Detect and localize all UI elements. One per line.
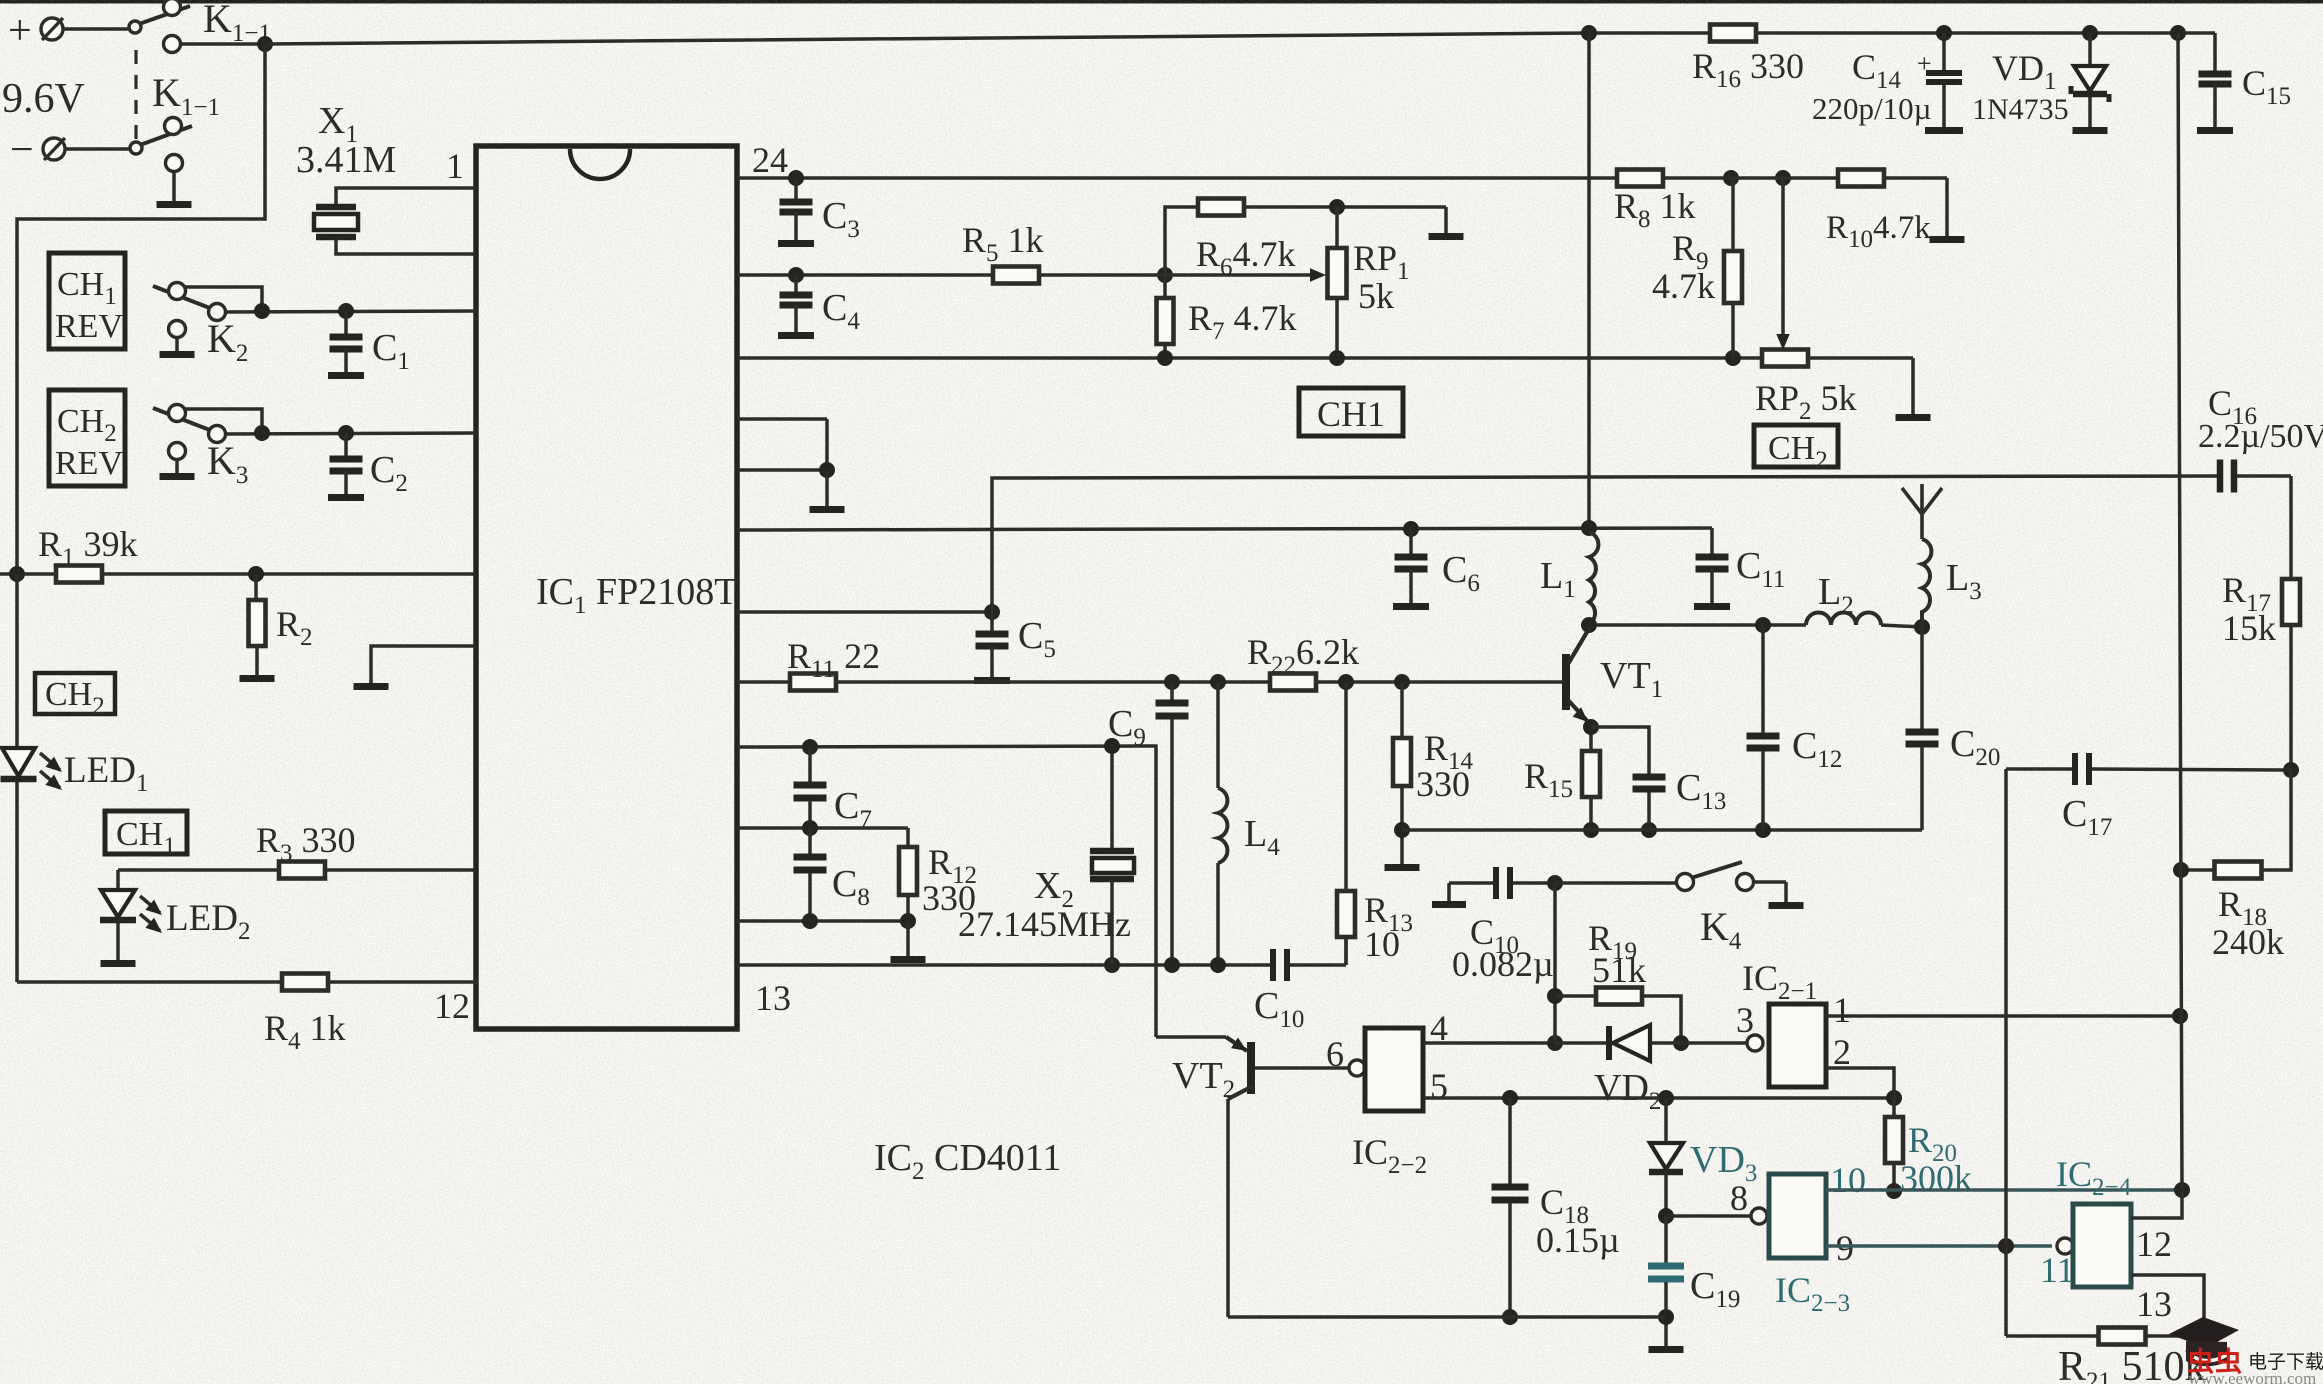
label X1 — [318, 100, 358, 148]
label IC2-3 — [1775, 1270, 1850, 1317]
label K1-1 lower — [152, 70, 220, 121]
capacitor C10 0.082u — [1432, 867, 1563, 908]
switch K4 — [1555, 862, 1786, 902]
pin 9 label — [1836, 1228, 1854, 1268]
label R16 330 — [1692, 46, 1804, 93]
pin 12 label gate — [2136, 1224, 2172, 1264]
svg-text:LED2: LED2 — [166, 898, 250, 945]
svg-text:5k: 5k — [1358, 276, 1394, 316]
resistor R8 — [1617, 170, 1663, 187]
wire K3 to IC — [226, 425, 476, 441]
label C13 — [1676, 767, 1726, 815]
label C7 — [834, 785, 872, 833]
capacitor C3 — [778, 178, 814, 247]
label IC2-1 — [1742, 958, 1817, 1005]
svg-text:2.2µ/50V: 2.2µ/50V — [2198, 418, 2323, 455]
label VT2 — [1172, 1055, 1235, 1103]
label K1-1 upper — [203, 0, 271, 47]
watermark logo — [2169, 1317, 2239, 1366]
watermark text — [2187, 1347, 2323, 1384]
pin 12 label — [434, 986, 470, 1026]
label C20 — [1950, 723, 2000, 771]
label K3 — [207, 438, 248, 489]
label R18 240k — [2212, 884, 2284, 962]
label L1 — [1540, 555, 1576, 603]
svg-text:−: − — [10, 127, 34, 173]
label 2.2u/50V — [2198, 418, 2323, 455]
wire feedback vertical — [2004, 769, 2008, 1336]
svg-text:9.6V: 9.6V — [2, 76, 85, 122]
wire C7 row to VT2 — [737, 738, 1156, 1037]
diode VD2 — [1555, 1025, 1747, 1061]
wire IC pin to ground hook — [371, 646, 476, 683]
label R21 510k — [2058, 1344, 2206, 1384]
pin 6 label — [1326, 1034, 1344, 1074]
capacitor C18 — [1492, 1098, 1529, 1325]
gate IC2-4 — [2057, 1204, 2131, 1287]
svg-text:9: 9 — [1836, 1228, 1854, 1268]
svg-text:CH1: CH1 — [1317, 394, 1385, 434]
transistor VT1 — [1562, 627, 1590, 724]
label C17 — [2062, 793, 2112, 841]
wire gate4 pin13 — [2131, 1275, 2204, 1336]
label VD1 — [1992, 48, 2057, 95]
label R19 51k — [1588, 918, 1646, 990]
wire R5 row — [737, 267, 1173, 283]
resistor R7 — [1157, 275, 1174, 358]
svg-text:0.15µ: 0.15µ — [1536, 1220, 1620, 1260]
ground below R10 — [1930, 178, 1965, 243]
wire R8 to R10 — [1663, 176, 1838, 180]
svg-text:240k: 240k — [2212, 922, 2284, 962]
label 27.145MHz — [958, 904, 1131, 944]
pin 1 label gate — [1833, 990, 1851, 1030]
label L4 — [1244, 813, 1280, 861]
label C1 — [372, 327, 410, 375]
svg-text:LED1: LED1 — [64, 750, 148, 797]
svg-text:300k: 300k — [1900, 1158, 1972, 1198]
ground below R2 — [240, 675, 275, 682]
svg-text:27.145MHz: 27.145MHz — [958, 904, 1131, 944]
label LED2 — [166, 898, 250, 945]
transistor VT2 — [1156, 1037, 1255, 1099]
label R8 1k — [1614, 186, 1696, 233]
battery negative terminal — [10, 127, 131, 173]
svg-text:24: 24 — [752, 140, 788, 180]
pin 5 label — [1430, 1066, 1448, 1106]
wire right main vertical — [2178, 33, 2182, 1190]
label C19 — [1690, 1265, 1740, 1313]
label 9.6V — [2, 76, 85, 122]
label 3.41M — [296, 139, 396, 181]
svg-text:3: 3 — [1736, 1000, 1754, 1040]
label C10 coupling — [1254, 985, 1304, 1033]
wire top rail — [265, 25, 2215, 44]
capacitor C16 — [2217, 460, 2291, 493]
wire pin8 row — [1666, 1208, 1767, 1224]
resistor R22 — [1270, 674, 1316, 691]
capacitor C5 — [974, 612, 1010, 684]
inductor L3 — [1922, 539, 1931, 627]
svg-text:15k: 15k — [2222, 608, 2276, 648]
potentiometer RP2 — [1762, 178, 1913, 414]
wire IC to C5 — [737, 604, 1000, 620]
capacitor C19 — [1648, 1216, 1684, 1346]
wire bottom rail — [1228, 1315, 1666, 1319]
crystal X2 — [1090, 746, 1134, 965]
wire vcc vertical — [1587, 33, 1591, 528]
label K2 — [207, 316, 248, 367]
wire VT2 collector down — [1226, 1099, 1230, 1317]
wire IC to L1 row — [737, 520, 1712, 537]
svg-text:R7 4.7k: R7 4.7k — [1188, 298, 1297, 345]
label R13 10 — [1364, 890, 1413, 964]
wire gate pin5 — [1423, 1090, 1902, 1106]
label IC2 CD4011 — [874, 1137, 1061, 1185]
svg-text:R3 330: R3 330 — [256, 820, 356, 867]
capacitor C2 — [328, 433, 364, 501]
label VD2 — [1594, 1067, 1661, 1115]
resistor R10 — [1838, 170, 1947, 187]
label C18 0.15u — [1536, 1182, 1620, 1260]
crystal X1 — [314, 204, 358, 241]
label X2 — [1034, 865, 1074, 913]
resistor R19 — [1555, 988, 1689, 1052]
ground after RP2 — [1896, 414, 1931, 421]
resistor R20 — [1885, 1098, 1903, 1199]
gate IC2-2 — [1365, 1028, 1423, 1111]
capacitor C7 — [794, 747, 827, 828]
capacitor C11 — [1694, 528, 1730, 610]
svg-text:10: 10 — [1830, 1160, 1866, 1200]
pin 13 label — [755, 978, 791, 1018]
wire gate3 pin9 — [1826, 1238, 2052, 1254]
pin 10 label — [1830, 1160, 1866, 1200]
capacitor C13 — [1591, 727, 1666, 838]
wire X1 to IC lower pin — [336, 240, 476, 254]
label C10 0.082u — [1452, 912, 1554, 984]
switch K3 — [153, 405, 262, 443]
box CH2 REV — [49, 390, 125, 486]
label R22 6.2k — [1247, 632, 1359, 679]
resistor R14 — [1393, 682, 1411, 864]
wire C5 to C16 — [992, 476, 2218, 612]
wire C8 row — [737, 820, 908, 836]
wire R4 row — [17, 980, 478, 984]
label C8 — [832, 863, 870, 911]
label C14 — [1852, 47, 1902, 94]
zener diode VD1 — [2071, 33, 2109, 134]
ground below C19 — [1649, 1346, 1684, 1353]
svg-text:330: 330 — [922, 878, 976, 918]
label K4 — [1700, 904, 1742, 955]
label C16 — [2208, 383, 2257, 430]
label R6 4.7k — [1196, 234, 1296, 281]
svg-text:4.7k: 4.7k — [1652, 266, 1715, 306]
svg-text:2: 2 — [1833, 1032, 1851, 1072]
svg-text:10: 10 — [1364, 924, 1400, 964]
wire base row to VT1 — [836, 674, 1564, 690]
label L3 — [1946, 557, 1982, 605]
label C15 — [2242, 63, 2291, 110]
wire C8 R12 row — [737, 913, 916, 956]
svg-text:330: 330 — [1416, 764, 1470, 804]
diode VD3 — [1649, 1098, 1683, 1224]
svg-text:1: 1 — [1833, 990, 1851, 1030]
wire gate pin4 — [1423, 1035, 1563, 1051]
box CH2 — [35, 673, 115, 720]
label R4 1k — [264, 1008, 346, 1055]
ground below K1-1 lower contact — [157, 171, 192, 208]
svg-text:13: 13 — [2136, 1284, 2172, 1324]
label IC2-4 — [2056, 1154, 2132, 1201]
label C4 — [822, 287, 860, 335]
capacitor C4 — [778, 275, 814, 339]
label L2 — [1818, 571, 1854, 619]
box CH1 — [105, 811, 187, 860]
wire R3 row — [118, 868, 476, 872]
ground at hook — [354, 683, 389, 690]
resistor R12 — [899, 828, 917, 921]
box CH1 REV — [49, 253, 125, 349]
label C12 — [1792, 725, 1842, 773]
svg-text:R8 1k: R8 1k — [1614, 186, 1696, 233]
wire K1-1 to top rail — [180, 36, 273, 52]
wire grounded pin pair — [737, 419, 835, 506]
label R14 330 — [1416, 728, 1474, 804]
switch gang dashed link — [134, 50, 137, 142]
ground at K3 — [160, 443, 195, 481]
wire gate1 pin1 — [1826, 1008, 2188, 1024]
svg-text:REV: REV — [55, 445, 123, 482]
capacitor C14 electrolytic — [1917, 33, 1963, 134]
ground below R12 — [891, 956, 926, 963]
ground after K4 — [1769, 902, 1804, 909]
switch K1-1 upper — [129, 0, 190, 53]
capacitor C20 — [1906, 627, 1939, 830]
label R15 — [1524, 756, 1573, 803]
label RP1 5k — [1353, 238, 1410, 316]
svg-text:8: 8 — [1730, 1178, 1748, 1218]
LED1 — [1, 574, 63, 982]
svg-text:1: 1 — [446, 146, 464, 186]
svg-text:220p/10µ: 220p/10µ — [1812, 91, 1931, 126]
inductor L2 — [1806, 613, 1930, 636]
svg-text:+: + — [8, 8, 32, 54]
label C2 — [370, 449, 408, 497]
svg-text:R5 1k: R5 1k — [962, 220, 1044, 267]
box CH2 channel — [1754, 425, 1838, 474]
label C3 — [822, 195, 860, 243]
label RP2 5k — [1755, 378, 1857, 425]
wire gate1 pin2 — [1826, 1068, 1894, 1098]
label 1N4735 — [1972, 93, 2069, 126]
svg-text:0.082µ: 0.082µ — [1452, 944, 1554, 984]
potentiometer RP1 — [1165, 207, 1347, 358]
capacitor C9 — [1156, 682, 1189, 965]
resistor R2 — [249, 574, 266, 675]
resistor R21 — [2006, 1328, 2204, 1345]
label R12 330 — [922, 842, 977, 918]
pin 24 label — [752, 140, 788, 180]
wire gate3 pin10 — [1826, 1182, 2190, 1198]
pin 2 label gate — [1833, 1032, 1851, 1072]
svg-text:www.eeworm.com: www.eeworm.com — [2188, 1369, 2316, 1384]
resistor R3 — [279, 862, 325, 879]
pin 1 label — [446, 146, 464, 186]
capacitor C8 — [794, 828, 827, 921]
ground at K2 — [160, 321, 195, 359]
svg-text:5: 5 — [1430, 1066, 1448, 1106]
label R9 4.7k — [1652, 228, 1715, 306]
ground below R14 — [1385, 822, 1420, 871]
svg-text:R16 330: R16 330 — [1692, 46, 1804, 93]
svg-text:6: 6 — [1326, 1034, 1344, 1074]
label C9 — [1108, 703, 1146, 751]
label R5 1k — [962, 220, 1044, 267]
resistor R9 — [1724, 178, 1742, 358]
resistor R13 — [1337, 682, 1355, 965]
wire emitter ground row — [1402, 822, 1922, 838]
IC U1 FP2108T body — [476, 146, 737, 1029]
label C11 — [1736, 545, 1785, 593]
wire K2 to IC — [226, 303, 476, 319]
wire L1 bottom row — [1581, 617, 1806, 633]
resistor R15 — [1582, 751, 1600, 797]
label C5 — [1018, 615, 1056, 663]
label R3 330 — [256, 820, 356, 867]
wire pin24 row — [737, 170, 1791, 186]
label R2 — [276, 604, 313, 651]
svg-text:3.41M: 3.41M — [296, 139, 396, 181]
capacitor C6 — [1393, 529, 1429, 610]
switch K2 — [153, 283, 262, 321]
capacitor C1 — [328, 311, 364, 379]
label R1 39k — [38, 524, 138, 571]
label VT1 — [1600, 655, 1663, 703]
resistor R6 — [1165, 199, 1446, 276]
label C6 — [1442, 549, 1480, 597]
svg-text:12: 12 — [434, 986, 470, 1026]
svg-text:IC2 CD4011: IC2 CD4011 — [874, 1137, 1061, 1185]
pin 11 label — [2040, 1250, 2075, 1290]
pin 8 label — [1730, 1178, 1748, 1218]
svg-text:13: 13 — [755, 978, 791, 1018]
gate IC2-3 — [1769, 1174, 1826, 1258]
svg-text:R226.2k: R226.2k — [1247, 632, 1359, 679]
wire R1 row — [0, 566, 476, 582]
pin 3 label — [1736, 1000, 1754, 1040]
resistor R17 — [2282, 476, 2300, 778]
wire left vertical feed — [17, 44, 265, 574]
resistor R16 — [1710, 25, 1756, 42]
label R20 300k — [1900, 1120, 1972, 1198]
svg-text:IC1 FP2108T: IC1 FP2108T — [536, 571, 737, 619]
capacitor C12 — [1747, 625, 1780, 830]
ground below LED2 — [101, 960, 136, 967]
label R7 4.7k — [1188, 298, 1297, 345]
ground after R6 — [1429, 207, 1464, 240]
label R17 15k — [2222, 570, 2276, 648]
label LED1 — [64, 750, 148, 797]
wire RP1 bottom row — [737, 350, 1764, 366]
svg-text:R4 1k: R4 1k — [264, 1008, 346, 1055]
box CH1 channel — [1299, 388, 1403, 436]
wire gate4 pin12 — [2131, 1190, 2182, 1218]
resistor R4 — [282, 974, 328, 991]
pin 4 label — [1430, 1008, 1448, 1048]
wire IC pin1 to X1 — [336, 188, 476, 206]
inductor L1 — [1589, 532, 1598, 624]
svg-text:R21 510k: R21 510k — [2058, 1344, 2206, 1384]
resistor R18 — [2173, 770, 2291, 879]
LED2 — [100, 870, 162, 960]
label VD3 — [1690, 1139, 1757, 1187]
svg-text:11: 11 — [2040, 1250, 2075, 1290]
wire pin13 row — [737, 957, 1270, 973]
resistor R11 — [737, 674, 836, 691]
label R11 22 — [787, 636, 880, 683]
svg-text:R1 39k: R1 39k — [38, 524, 138, 571]
label R10 4.7k — [1826, 210, 1931, 253]
resistor R5 — [993, 267, 1165, 284]
antenna — [1902, 484, 1942, 539]
capacitor C17 — [2006, 753, 2291, 785]
svg-text:12: 12 — [2136, 1224, 2172, 1264]
svg-text:1N4735: 1N4735 — [1972, 93, 2069, 126]
label 220p/10u — [1812, 91, 1931, 126]
ground at pin pair — [810, 506, 845, 513]
gate IC2-1 — [1747, 1004, 1826, 1087]
label IC2-2 — [1352, 1132, 1427, 1179]
capacitor C10 coupling — [1270, 937, 1346, 981]
svg-text:51k: 51k — [1592, 950, 1646, 990]
svg-text:REV: REV — [55, 308, 123, 345]
battery positive terminal — [8, 8, 130, 54]
wire VT2 base to gate — [1255, 1060, 1365, 1076]
resistor R1 — [56, 566, 102, 583]
wire K4 node vertical — [1547, 883, 1563, 1043]
inductor L4 — [1218, 682, 1227, 965]
wire VT1 emitter — [1583, 719, 1599, 838]
capacitor C15 — [2197, 33, 2233, 134]
switch K1-1 lower — [130, 118, 192, 172]
pin 13 label gate — [2136, 1284, 2172, 1324]
